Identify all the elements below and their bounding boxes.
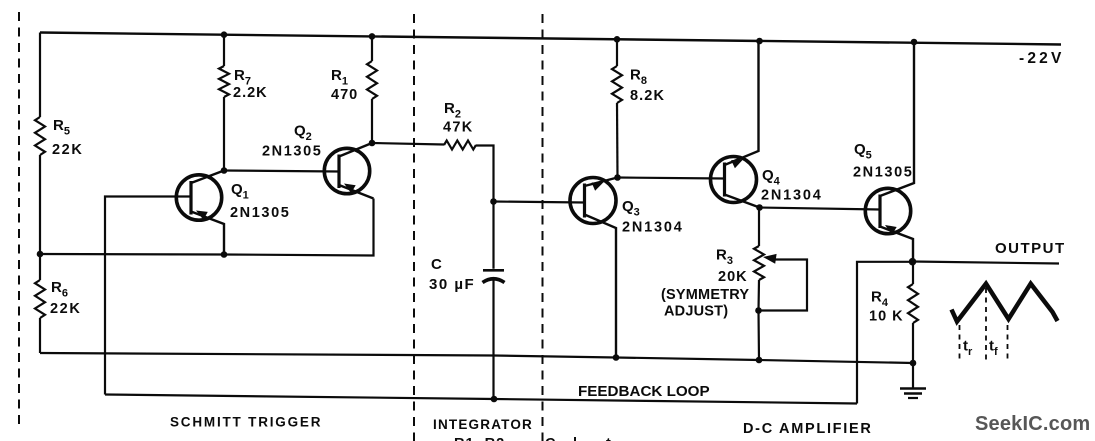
node rail / Q4 collector [756, 38, 763, 45]
resistor R4 [908, 284, 918, 323]
svg-text:10 K: 10 K [869, 309, 904, 325]
wire R5 to node [39, 155, 41, 254]
svg-text:2N1304: 2N1304 [622, 220, 684, 236]
wire node to Q4 base [618, 178, 725, 179]
wire R3 bottom to rail [757, 280, 760, 360]
svg-text:47K: 47K [443, 120, 474, 136]
wire R8 to Q3 collector node [616, 103, 619, 178]
node R4 / rail / ground [910, 360, 917, 367]
wire capacitor C bottom to feedback line [492, 280, 494, 399]
output triangle waveform [952, 284, 1058, 322]
node R3 bottom / wiper loop [755, 307, 762, 314]
wire R1 to Q2 collector node [371, 99, 373, 143]
svg-text:2N1304: 2N1304 [761, 188, 823, 204]
resistor R8 [612, 66, 622, 103]
section divider dashed line integrator-left [413, 14, 415, 441]
wire Q4 emitter node to R3 [758, 208, 760, 247]
transistor Q2 2N1305 [324, 143, 373, 199]
node R5/R6/emitter-rail [37, 251, 44, 258]
svg-text:ADJUST): ADJUST) [664, 304, 728, 320]
node R8 / Q3 / Q4 base [614, 174, 621, 181]
section divider dashed line integrator-right [542, 14, 544, 441]
wire feedback loop right riser to output node [857, 262, 913, 404]
wire feedback loop left riser to Q1 base [105, 197, 191, 395]
wire node to capacitor C top [492, 202, 494, 269]
node Q4 emitter / Q5 base / R3 [756, 204, 763, 211]
node Q1 emitter / rail [221, 251, 228, 258]
capacitor C 30uF [483, 270, 505, 282]
node Q2 collector / R1 / R2 [369, 140, 376, 147]
wiper arrow of R3 [763, 254, 777, 264]
node R2/C/Q3 base [490, 198, 497, 205]
waveform dashed marker left [959, 325, 961, 362]
node rail/R8 [614, 36, 621, 43]
node C / feedback line [491, 396, 498, 403]
svg-text:2N1305: 2N1305 [262, 144, 322, 160]
waveform dashed marker center [985, 288, 987, 362]
wire node to Q3 base [494, 202, 585, 203]
svg-text:2.2K: 2.2K [233, 85, 268, 101]
wire -22V top supply rail [40, 33, 1061, 45]
waveform dashed marker right [1007, 325, 1009, 362]
svg-text:SeekIC.com: SeekIC.com [975, 413, 1090, 435]
svg-text:SCHMITT TRIGGER: SCHMITT TRIGGER [170, 415, 322, 430]
resistor R5 [35, 117, 45, 155]
transistor Q3 2N1304 [570, 178, 618, 358]
svg-text:INTEGRATOR: INTEGRATOR [433, 417, 533, 432]
svg-text:(SYMMETRY: (SYMMETRY [661, 287, 749, 303]
svg-text:l: l [573, 436, 577, 441]
wire R2 to Q3 base node [476, 146, 494, 202]
wire OUTPUT [913, 262, 1060, 264]
svg-text:-22V: -22V [1019, 50, 1065, 67]
node output (Q5 emitter / R4 / feedback) [909, 258, 917, 266]
wire node to R6 [39, 254, 41, 280]
svg-text:FEEDBACK LOOP: FEEDBACK LOOP [578, 383, 710, 400]
svg-text:D-C AMPLIFIER: D-C AMPLIFIER [743, 421, 873, 437]
node rail / Q5 collector [911, 39, 918, 46]
svg-text:t: t [606, 436, 611, 441]
wire R6 to bottom rail [39, 318, 41, 353]
wire rail to R8 [616, 39, 618, 66]
wire Q1/Q2 emitter rail [40, 199, 374, 256]
svg-text:2N1305: 2N1305 [853, 165, 913, 181]
svg-text:8.2K: 8.2K [630, 88, 665, 104]
transistor Q5 2N1305 [865, 42, 914, 262]
node rail/R1 [369, 33, 376, 40]
svg-text:R1, R2: R1, R2 [454, 436, 505, 441]
svg-text:30 µF: 30 µF [429, 276, 475, 293]
wire feedback loop bottom [105, 395, 857, 404]
node R3 / bottom rail [756, 357, 763, 364]
wire Q4 emitter node to Q5 base [760, 208, 881, 210]
wire R3 wiper loop [759, 260, 808, 311]
wire left branch top (rail to R5) [39, 33, 41, 118]
wire output node to R4 [912, 262, 914, 285]
transistor Q1 2N1305 [176, 171, 224, 255]
resistor R3 potentiometer 20K [754, 246, 764, 280]
svg-text:470: 470 [331, 87, 358, 103]
svg-text:20K: 20K [718, 269, 748, 285]
svg-text:C: C [545, 436, 556, 441]
svg-text:2N1305: 2N1305 [230, 205, 290, 221]
section divider dashed line left [18, 12, 20, 430]
resistor R7 [219, 66, 229, 97]
resistor R6 [35, 280, 45, 318]
node Q3 emitter / bottom rail [613, 354, 620, 361]
svg-text:OUTPUT: OUTPUT [995, 240, 1066, 257]
wire rail to R1 [371, 36, 373, 61]
wire bottom ground-side rail [40, 353, 913, 363]
resistor R1 [367, 61, 377, 99]
resistor R2 [444, 141, 476, 150]
transistor Q4 2N1304 [711, 41, 760, 208]
svg-text:C: C [431, 256, 442, 273]
node Q1 collector / R7 / Q2 base [221, 167, 228, 174]
wire node to Q2 base [224, 171, 339, 172]
wire rail to R7 [223, 35, 225, 66]
svg-text:22K: 22K [50, 301, 81, 317]
wire Q2 collector to R2 [372, 143, 444, 145]
ground [900, 363, 926, 398]
wire R7 to Q1 collector node [223, 97, 225, 171]
wire R4 to bottom rail [912, 323, 914, 363]
node rail/R7 [221, 31, 228, 38]
svg-text:22K: 22K [52, 142, 83, 158]
